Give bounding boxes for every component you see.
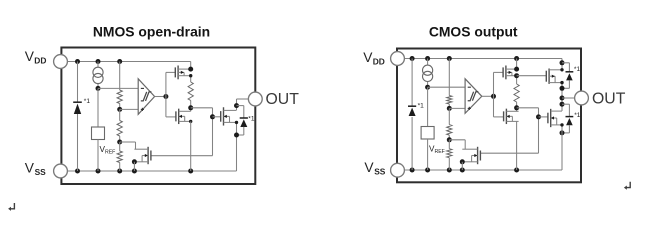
wire: R7 to VSS rail <box>448 158 450 170</box>
wire: inverter gate rail (right) <box>493 72 495 117</box>
wire: VDD top rail (right) <box>398 58 563 60</box>
node: Q2 source tie <box>189 120 192 123</box>
wire: plus input to comparator U1 <box>120 108 139 110</box>
node: D2 anode tie <box>234 133 239 138</box>
wire: divider top (right) <box>448 59 450 96</box>
node: divider tap (right) <box>447 106 452 111</box>
diode D2 (*1 parasitic at OUT) <box>240 117 248 119</box>
wire: inverter output to gate chain <box>191 107 213 109</box>
pad OUT (left) <box>248 92 262 106</box>
wire: VREF2 to VSS rail <box>427 139 429 170</box>
wire: down to VREF2 <box>427 87 429 126</box>
wire: VSS bottom rail <box>61 170 237 172</box>
resistor R2 (divider middle) <box>117 121 122 137</box>
node: D5 anode tie <box>560 130 565 135</box>
pad OUT (right) <box>575 91 589 105</box>
wire: gate chain vertical (right) <box>538 108 540 153</box>
diode D5 (*1 parasitic, NMOS) <box>566 116 574 118</box>
node: hysteresis tap (right) <box>447 137 452 142</box>
node: comparator minus net <box>96 86 101 91</box>
svg-text:CMOS output: CMOS output <box>429 24 518 40</box>
wire: down to VREF <box>97 88 99 127</box>
node: Q9 gate branch <box>536 114 541 119</box>
node: inverter output (right) <box>514 105 519 110</box>
wire: plus input to U2 <box>449 107 465 109</box>
node: inverter output <box>188 105 193 110</box>
transistor Q6 (NMOS, inverter) <box>503 111 505 121</box>
svg-text:VREF: VREF <box>100 145 116 156</box>
wire: R2 to hysteresis node <box>119 136 121 142</box>
wire: U2 output <box>482 95 494 97</box>
wire: VSS bottom rail (right) <box>398 169 563 171</box>
resistor R1 (divider top) <box>117 90 122 104</box>
wire: R1 to tap node <box>119 104 121 110</box>
node: Q4 gate branch <box>210 114 215 119</box>
node: Q1 drain tie <box>189 74 192 77</box>
wire: U1 output <box>155 96 166 98</box>
node: D5 cathode branch <box>560 102 565 107</box>
transistor Q4 (NMOS, open-drain output) <box>220 111 222 122</box>
resistor R8 (inverter load) <box>514 84 519 102</box>
node: Q8 drain tie <box>560 81 563 84</box>
wire: VREF1 to VSS rail <box>97 140 99 172</box>
svg-text:V: V <box>364 160 374 175</box>
node: D4 anode tie <box>560 86 565 91</box>
wire: Q9 source to VSS rail <box>561 125 563 170</box>
wire: tap down to R2 <box>119 109 121 120</box>
transistor Q8 (PMOS, CMOS output high-side) <box>545 71 547 82</box>
wire: VDD rail corner into Q1 source <box>190 62 192 70</box>
node: Q9 source tie <box>560 123 563 126</box>
svg-text:NMOS open-drain: NMOS open-drain <box>93 24 210 40</box>
wire: Q5 gate lead <box>494 71 504 73</box>
wire: D4 cathode jog <box>562 62 569 64</box>
svg-text:OUT: OUT <box>592 91 626 108</box>
node: Q4 source tie <box>235 121 238 124</box>
pad VSS (left) <box>54 164 68 178</box>
diode D4 (*1 parasitic, PMOS) <box>566 71 574 73</box>
wire: Q4 drain vertical to OUT <box>236 99 238 110</box>
node: VSS rail junctions (right) <box>410 168 415 173</box>
wire: Q8 gate from Q5 drain <box>517 75 547 77</box>
node: comparator minus net (right) <box>425 85 430 90</box>
svg-text:V: V <box>363 50 373 65</box>
wire: current source stubs (right) <box>427 59 429 66</box>
wire: Q2 gate lead <box>166 116 176 118</box>
svg-text:*1: *1 <box>418 103 425 110</box>
svg-text:*1: *1 <box>84 98 91 105</box>
wire: R5 to tap <box>448 104 450 108</box>
node: D2 cathode branch <box>234 103 239 108</box>
node: Q1 source tie <box>188 67 193 72</box>
wire: minus input to comparator U1 <box>98 87 138 89</box>
svg-text:*1: *1 <box>574 66 581 73</box>
svg-text:*1: *1 <box>248 115 255 122</box>
resistor R4 (inverter load) <box>188 82 193 101</box>
wire: Q6 gate lead <box>494 116 504 118</box>
wire: diode D1 branch <box>77 62 79 103</box>
resistor R6 (divider middle) <box>447 125 452 136</box>
svg-text:SS: SS <box>35 167 47 177</box>
node: VSS rail junctions <box>75 169 80 174</box>
wire: hysteresis tap to Q7 drain <box>449 139 465 141</box>
svg-text:VREF: VREF <box>429 144 445 155</box>
node: VDD rail junctions <box>75 59 80 64</box>
wire: diode D3 branch <box>411 59 413 107</box>
wire: Q2 source to VSS rail <box>190 121 192 171</box>
wire: R3 to VSS rail <box>119 163 121 172</box>
resistor R7 (divider bottom) <box>447 149 452 158</box>
IC boundary box (right panel) <box>397 49 581 183</box>
IC boundary box (left panel) <box>61 48 255 185</box>
node: Q7 source <box>460 159 465 164</box>
wire: Q4 gate lead <box>213 116 221 118</box>
svg-text:DD: DD <box>34 55 46 65</box>
wire: D5 cathode jog <box>562 103 569 105</box>
paragraph return mark (left) <box>10 203 14 209</box>
wire: D2 cathode jog <box>237 105 244 107</box>
wire: to OUT pad (right) <box>562 97 576 99</box>
wire: D4 anode jog <box>568 80 570 88</box>
wire: Q9 gate lead <box>539 116 548 118</box>
node: U2 output <box>491 94 496 99</box>
wire: VDD rail corner into Q8 source <box>561 59 563 70</box>
node: Q8 source tie <box>560 68 563 71</box>
wire: Q5 drain to R8 <box>516 76 518 84</box>
op-amp U1 (comparator with hysteresis) <box>138 79 154 115</box>
plus sign U1 <box>141 108 144 110</box>
wire: current source stubs <box>97 62 99 68</box>
resistor R5 (divider top) <box>447 96 452 105</box>
hysteresis symbol U2 <box>468 92 479 101</box>
minus sign U1 <box>141 87 144 89</box>
node: OUT junction (right) <box>560 96 565 101</box>
plus sign U2 <box>468 107 471 109</box>
wire: inverter gate rail <box>165 72 167 117</box>
wire: gate chain to Q7 gate <box>480 152 538 154</box>
current source I2 <box>423 65 433 75</box>
pad VSS (right) <box>391 163 405 177</box>
wire: Q6 source to VSS rail <box>516 121 518 170</box>
wire: VDD top rail <box>61 61 191 63</box>
wire: VDD rail into Q5 source <box>516 59 518 70</box>
wire: Q4 source to VSS rail <box>236 122 238 171</box>
node: D4 cathode branch <box>560 60 565 65</box>
wire: R6 to hysteresis node <box>448 135 450 140</box>
transistor Q9 (NMOS, CMOS output low-side) <box>547 113 549 124</box>
svg-text:V: V <box>25 161 35 176</box>
pad VDD (right) <box>391 52 405 66</box>
diode D1 (*1 parasitic, VSS to VDD) <box>73 101 82 103</box>
wire: Q1 gate lead <box>166 71 175 73</box>
svg-text:SS: SS <box>374 167 386 177</box>
wire: Q8 drain vertical through OUT <box>561 83 563 111</box>
wire: D2 anode jog <box>243 127 245 135</box>
wire: minus input to U2 <box>428 86 466 88</box>
wire: node to R3 <box>119 142 121 151</box>
wire: gate chain to Q3 gate <box>151 155 213 157</box>
wire: Q3 source to VSS rail <box>133 162 135 171</box>
wire: R8 to inverter output <box>516 102 518 111</box>
svg-text:*1: *1 <box>574 112 581 119</box>
wire: inverter output to gate chain (right) <box>517 107 539 109</box>
node: Q3 source <box>132 159 137 164</box>
resistor R3 (divider bottom) <box>117 151 122 163</box>
wire: Q7 source to VSS rail <box>461 162 463 170</box>
node: VDD rail junctions (right) <box>410 56 415 61</box>
paragraph return mark (right) <box>626 182 630 188</box>
wire: R4 to inverter output node <box>190 101 192 112</box>
wire: node to R7 <box>448 140 450 149</box>
svg-text:V: V <box>25 49 35 64</box>
node: divider tap to plus input <box>117 107 122 112</box>
transistor Q7 (NMOS, hysteresis switch) <box>479 151 481 161</box>
diode D3 (*1 parasitic) <box>408 105 416 107</box>
wire: tap to R6 <box>448 108 450 124</box>
wire: gate chain vertical <box>212 108 214 156</box>
transistor Q5 (PMOS, inverter) <box>502 67 504 77</box>
svg-text:OUT: OUT <box>266 91 300 108</box>
pad VDD (left) <box>54 55 68 69</box>
wire: divider top <box>119 62 121 91</box>
svg-text:DD: DD <box>373 57 385 67</box>
hysteresis symbol U1 <box>141 92 152 101</box>
wire: Q1 drain to R4 <box>190 76 192 82</box>
transistor Q3 (NMOS, hysteresis switch) <box>150 151 152 161</box>
node: Q5 drain / Q8 gate branch <box>514 73 519 78</box>
wire: hysteresis tap to Q3 drain <box>120 141 136 143</box>
current source I1 <box>93 67 103 77</box>
transistor Q2 (NMOS, inverter) <box>175 111 177 121</box>
voltage reference VREF2 <box>421 127 434 140</box>
node: U1 output <box>163 94 168 99</box>
transistor Q1 (PMOS, inverter) <box>174 67 176 77</box>
voltage reference VREF1 <box>92 127 105 140</box>
op-amp U2 (comparator with hysteresis) <box>465 79 482 114</box>
minus sign U2 <box>468 86 471 88</box>
wire: to OUT pad <box>237 98 251 100</box>
node: hysteresis tap <box>117 140 122 145</box>
wire: D5 anode jog <box>568 125 570 133</box>
node: Q5 source tie <box>514 67 519 72</box>
